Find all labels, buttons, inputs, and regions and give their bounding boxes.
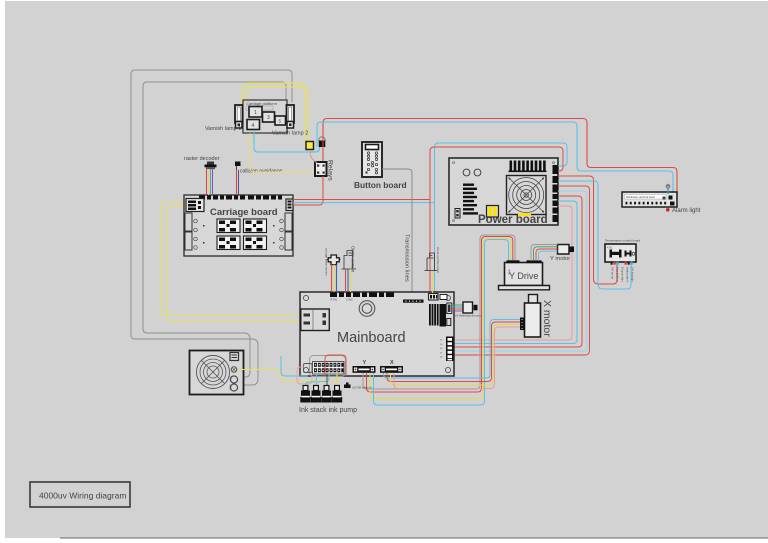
svg-text:Y: Y — [363, 360, 367, 366]
wire bundle red b1 mainboard to power — [453, 206, 572, 340]
power board yellow capacitors — [487, 206, 499, 218]
varnish lamp 2 body — [287, 105, 295, 128]
wire cyan lamp to relay junction — [254, 131, 309, 152]
svg-text:Mainboard: Mainboard — [337, 330, 406, 346]
ink grid gray frame — [310, 356, 346, 377]
power board right edge connectors — [553, 165, 559, 222]
power board — [449, 158, 558, 226]
ink pump 4 — [332, 386, 342, 403]
wire cyan grid to pump1 — [306, 374, 317, 387]
wire blue carriage pair — [293, 202, 435, 204]
wire bundle blue b2 — [453, 201, 577, 344]
svg-text:Relays: Relays — [327, 160, 334, 181]
wire gray loop inner (carriage harness) — [143, 82, 286, 377]
svg-text:raster decoder: raster decoder — [184, 156, 220, 162]
mainboard ink connector grid — [313, 362, 345, 375]
svg-text:Origin sensor: Origin sensor — [351, 246, 356, 273]
power board small part — [455, 209, 460, 219]
power board heatsink left — [463, 184, 478, 215]
svg-text:C IN2: C IN2 — [346, 298, 353, 302]
svg-text:24 green light: 24 green light — [621, 267, 624, 282]
raster decoder component — [205, 162, 217, 170]
mainboard ethernet port — [301, 309, 330, 331]
mainboard aux white box — [440, 295, 447, 300]
origin sensor symbol — [342, 251, 357, 270]
svg-text:4.0C: 4.0C — [607, 246, 613, 250]
mainboard transmission connector — [403, 300, 424, 303]
wires carriage power sensor — [331, 265, 333, 293]
svg-text:temp probe in: temp probe in — [616, 267, 619, 282]
wire cyan junction to mainboard top — [309, 147, 320, 152]
svg-text:Varnish lamp 2: Varnish lamp 2 — [272, 131, 308, 137]
wire red power to temp board — [558, 176, 617, 284]
alarm light label with red dot — [666, 208, 670, 212]
fan box fuse holder — [230, 353, 239, 361]
mainboard bottom-right connector column — [440, 337, 454, 362]
button board — [362, 142, 382, 177]
ink pump 2 — [311, 386, 321, 403]
raster decoder wires — [207, 169, 213, 195]
wire bundle blue b4 — [453, 191, 587, 351]
fan box terminal 24V — [230, 376, 237, 383]
wire yellow carriage to relay — [250, 133, 315, 172]
wire yellow fan to ink area — [238, 370, 335, 381]
wire yellow lamp arc outer — [242, 83, 305, 141]
temp board bottom pins — [611, 262, 613, 265]
svg-text:heating wire in: heating wire in — [626, 267, 629, 283]
mainboard — [300, 292, 454, 377]
svg-text:1: 1 — [254, 110, 257, 116]
relay K1 — [315, 162, 327, 176]
svg-text:X motor: X motor — [541, 300, 553, 337]
wire bundle red b3 — [453, 196, 582, 347]
wire red loop around ink grid — [325, 355, 346, 376]
platform module 1 — [249, 107, 262, 118]
svg-text:count up flow meter: count up flow meter — [436, 247, 440, 273]
svg-text:24V out fan: 24V out fan — [611, 267, 614, 280]
wire yellow loop 1 carriage board to mainboard — [161, 202, 300, 316]
mainboard flow-meter connector — [429, 294, 439, 301]
Y motor — [558, 245, 575, 255]
carriage platform box — [243, 100, 287, 133]
varnish lamp 1 body — [235, 105, 243, 128]
fan box terminal GND — [230, 384, 237, 391]
wire red relay up and across to alarm — [323, 119, 677, 197]
svg-text:Temperature control board: Temperature control board — [605, 239, 641, 243]
carriage board head connector A1 — [217, 219, 240, 233]
platform module 5 — [275, 116, 286, 125]
svg-text:IF IN1: IF IN1 — [330, 298, 338, 302]
svg-text:Alarm light: Alarm light — [672, 208, 701, 214]
UV flattening ink motor — [455, 302, 481, 318]
wire red power feed to flow sensor — [430, 147, 563, 293]
svg-text:carriage power sensor: carriage power sensor — [325, 248, 329, 276]
svg-text:Varnish lamp 1: Varnish lamp 1 — [205, 126, 241, 132]
mainboard motor cable connector — [447, 303, 452, 314]
wire red carriage to flow sensor drop — [293, 199, 430, 201]
wire cyan to ink area — [281, 356, 308, 376]
wires Y drive to Y motor — [531, 245, 558, 262]
mainboard mounting circle — [359, 301, 375, 317]
temp relay 1 (I-beam) — [610, 250, 622, 258]
fan box switch circle — [231, 367, 237, 373]
carriage board left edge sockets — [185, 213, 192, 231]
ink pump 1 — [300, 386, 310, 403]
lamp drive component (black) — [319, 137, 326, 147]
mainboard motor cable wires — [452, 305, 463, 311]
wire yellow grid to pump4 — [336, 374, 338, 387]
carriage board — [184, 195, 293, 256]
power board heatsink top — [509, 161, 547, 173]
svg-text:Transmission lines: Transmission lines — [404, 234, 410, 282]
carriage power sensor — [327, 255, 341, 265]
mainboard right bars heatsink — [429, 304, 446, 327]
wire yellow loop 2 carriage board to mainboard — [167, 207, 300, 322]
svg-text:Y motor: Y motor — [550, 256, 570, 262]
platform module 3 — [263, 112, 275, 122]
count up flow meter symbol — [425, 253, 438, 271]
svg-text:24V: 24V — [229, 376, 232, 381]
temperature control board — [605, 244, 636, 265]
svg-text:Carriage board: Carriage board — [210, 207, 278, 218]
svg-text:ULT DR white ink: ULT DR white ink — [352, 386, 373, 390]
svg-text:Y Drive: Y Drive — [509, 271, 538, 281]
alarm light strip — [622, 192, 677, 207]
temp board pin labels (vertical) — [611, 267, 634, 283]
svg-text:4: 4 — [252, 123, 255, 129]
wire blue lamp-drive up and across to alarm — [317, 122, 673, 194]
wire dark grid to pump3 — [326, 374, 328, 387]
svg-text:24V heat light: 24V heat light — [631, 267, 634, 282]
carriage board head connector B2 — [244, 236, 267, 250]
Y drive — [499, 260, 550, 290]
platform module 4 — [247, 120, 260, 130]
wire yellow lamp arc inner — [246, 87, 308, 141]
svg-text:Button board: Button board — [354, 180, 407, 190]
carriage board head connector B1 — [217, 236, 240, 250]
wire pink junction to relay — [310, 150, 317, 163]
mainboard small part — [447, 319, 451, 326]
svg-text:4000uv Wiring diagram: 4000uv Wiring diagram — [39, 491, 126, 501]
wire pink hook left of pumps — [297, 367, 312, 384]
svg-text:Ink stack ink pump: Ink stack ink pump — [299, 407, 357, 414]
carriage board top connector row — [199, 196, 282, 200]
svg-text:GND: GND — [229, 385, 232, 391]
bottom border line — [60, 537, 768, 539]
svg-text:relay: relay — [508, 269, 512, 275]
wires X connector to X motor — [384, 320, 521, 379]
ink pump 3 — [321, 386, 331, 403]
wires origin sensor — [345, 269, 347, 292]
svg-text:UV flattening ink motor: UV flattening ink motor — [455, 314, 481, 318]
wire cyan grid to pump2 — [316, 374, 329, 387]
carriage board right edge sockets — [285, 213, 292, 231]
carriage board top-right output connector — [286, 199, 293, 211]
wire blue power to temp board — [558, 181, 631, 289]
carriage board left power connector — [186, 199, 204, 212]
title box — [30, 482, 130, 507]
wire bundle red b5 — [453, 186, 590, 355]
lamp relay connector (yellow) — [306, 142, 314, 150]
ink valve component — [344, 383, 373, 390]
svg-text:X: X — [390, 360, 394, 366]
fan box (negative pressure unit) — [190, 351, 244, 395]
wire cyan power feed to flow sensor — [435, 143, 568, 293]
power board indicator circles — [463, 169, 470, 176]
wire gray loop outer (carriage harness) — [131, 70, 292, 385]
mainboard left small connector — [304, 364, 313, 373]
svg-text:Carriage platform: Carriage platform — [246, 101, 278, 106]
carriage board head connector A2 — [244, 219, 267, 233]
collision avoidance sensor — [235, 162, 241, 171]
wires Y connector to Y drive (arch) — [363, 235, 515, 389]
power board fan — [507, 176, 547, 216]
svg-text:3: 3 — [267, 115, 270, 121]
alarm light led stub — [667, 188, 669, 194]
collision avoidance wires — [236, 170, 238, 195]
wire gray button board to mainboard (transmission) — [382, 169, 412, 299]
temp relay 2 (small I-beam) — [625, 251, 632, 257]
wire red relay down to carriage connector — [293, 176, 323, 205]
X motor — [520, 295, 541, 338]
wires count up flow meter — [432, 271, 434, 293]
mainboard top connector row — [330, 293, 394, 298]
svg-text:Distribution electrical board: Distribution electrical board — [626, 196, 656, 199]
